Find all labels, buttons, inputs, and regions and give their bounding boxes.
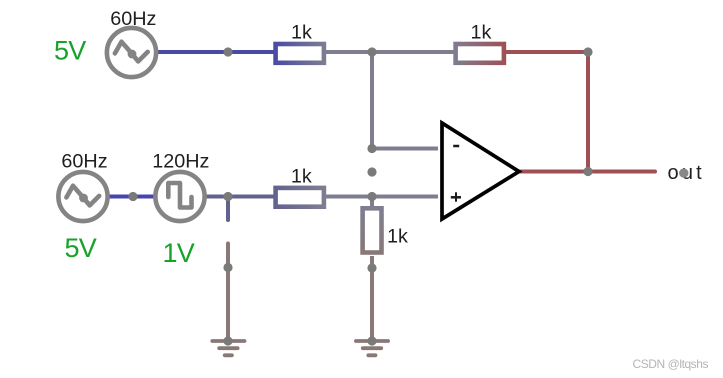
svg-text:60Hz: 60Hz (110, 8, 156, 30)
svg-text:1k: 1k (291, 22, 312, 44)
svg-text:CSDN @ltqshs: CSDN @ltqshs (633, 357, 709, 371)
svg-text:5V: 5V (65, 233, 97, 263)
svg-text:1k: 1k (471, 22, 492, 44)
svg-text:1k: 1k (387, 226, 408, 248)
svg-text:1k: 1k (291, 166, 312, 188)
svg-text:120Hz: 120Hz (152, 151, 209, 173)
svg-text:1V: 1V (163, 238, 195, 268)
svg-text:60Hz: 60Hz (61, 151, 107, 173)
svg-text:5V: 5V (54, 36, 86, 66)
